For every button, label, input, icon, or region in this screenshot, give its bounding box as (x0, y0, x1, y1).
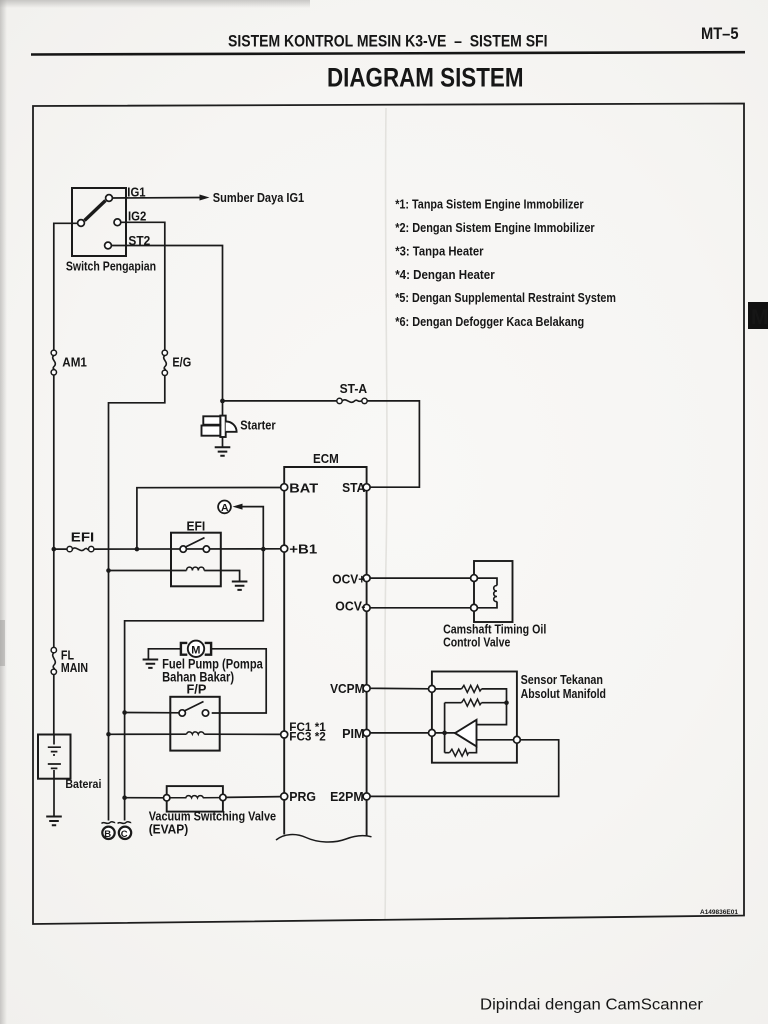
K1 contact left (180, 546, 186, 552)
svg-text:Absolut Manifold: Absolut Manifold (521, 686, 606, 701)
ground fuel pump (143, 660, 159, 668)
VSV box (167, 786, 223, 812)
wire IG1 to Sumber Daya (113, 197, 202, 200)
wire A branch and C bus (125, 507, 264, 821)
MAP wire PIM to amp (435, 732, 455, 734)
ECM box outline (284, 467, 366, 837)
fuel pump motor M circle (188, 641, 204, 657)
wire AM1 bus down (53, 375, 55, 647)
svg-text:(EVAP): (EVAP) (149, 821, 189, 836)
MAP resistor R3 line (445, 746, 477, 752)
K1 blade (186, 538, 205, 547)
wire AM1 feed (pivot to left bus) (54, 223, 78, 350)
fuel pump bracket right (205, 643, 211, 655)
svg-text:MT–5: MT–5 (701, 24, 739, 43)
K1 coil line to ground (204, 571, 239, 582)
test point A circle (218, 501, 231, 514)
junction B bus / EFI relay coil (106, 568, 111, 573)
K2 contact left (179, 710, 185, 716)
faint centre crease (385, 108, 387, 920)
wire VSV to PRG pin (226, 796, 281, 799)
fuse FL MAIN (51, 647, 56, 652)
SW1 pivot contact (78, 220, 85, 227)
starter pinion fan (226, 421, 237, 431)
svg-text:E2PM: E2PM (330, 789, 364, 804)
pin +B1 (281, 545, 288, 552)
wire EFI fuse line to +B1 (54, 548, 281, 550)
svg-text:MAIN: MAIN (61, 661, 88, 675)
MAP sensor outer box (432, 672, 517, 763)
wire IG2 to E/G (121, 222, 165, 350)
ground EFI relay (232, 582, 248, 590)
svg-text:VCPM: VCPM (330, 681, 364, 696)
connector C circle (119, 827, 131, 839)
svg-text:ST2: ST2 (128, 233, 150, 248)
pin E2PM (363, 793, 370, 800)
OCV terminal + (471, 575, 478, 582)
pin PIM (363, 729, 370, 736)
battery internal plates (48, 735, 61, 779)
svg-text:OCV-: OCV- (335, 598, 365, 613)
svg-text:OCV+: OCV+ (332, 571, 365, 586)
MAP resistor R1 line (435, 689, 506, 703)
wire ST2 to starter column (111, 246, 222, 401)
svg-text:+B1: +B1 (289, 541, 317, 556)
svg-text:EFI: EFI (187, 519, 206, 534)
fuel pump bracket left (181, 643, 187, 655)
EFI relay K1 box (171, 533, 221, 587)
SW1 terminal ST2 (105, 242, 112, 249)
junction PIM rail (442, 731, 447, 736)
MAP terminal VC (429, 686, 436, 693)
MAP resistor R2 (462, 699, 482, 706)
svg-text:EFI: EFI (71, 530, 94, 545)
svg-text:M: M (191, 645, 200, 657)
diagram border frame (33, 104, 744, 925)
starter field frame upper (203, 416, 220, 424)
svg-text:IG1: IG1 (127, 184, 145, 199)
wire OCV+ (370, 577, 470, 579)
svg-text:IG2: IG2 (128, 208, 146, 223)
scan edge shading left (0, 0, 7, 1024)
svg-text:*5: Dengan Supplemental Restra: *5: Dengan Supplemental Restraint System (395, 290, 616, 305)
svg-text:Switch Pengapian: Switch Pengapian (66, 259, 156, 274)
wire E2PM (370, 740, 559, 797)
MAP feedback wire (477, 703, 507, 725)
connector B squiggle (102, 822, 116, 824)
VSV terminal right (220, 794, 226, 800)
svg-text:Sensor Tekanan: Sensor Tekanan (521, 672, 603, 687)
pin PRG (281, 793, 288, 800)
junction B bus / FP relay coil (106, 732, 111, 737)
svg-text:F/P: F/P (187, 682, 207, 697)
SW1 terminal IG2 (114, 219, 121, 226)
junction +B1 / A branch (261, 547, 266, 552)
MAP terminal PIM (429, 730, 436, 737)
K2 blade (185, 702, 204, 711)
wire ST-A to STA pin (367, 401, 419, 487)
junction C bus / FP switch (122, 710, 127, 715)
fuse AM1 (51, 350, 56, 355)
svg-text:*1: Tanpa Sistem Engine Immobi: *1: Tanpa Sistem Engine Immobilizer (395, 197, 583, 212)
wire OCV- (370, 607, 470, 609)
SW1 terminal IG1 (106, 195, 113, 202)
svg-text:*2: Dengan Sistem Engine Immob: *2: Dengan Sistem Engine Immobilizer (395, 220, 595, 235)
K2 contact right (202, 710, 208, 716)
pin STA (363, 484, 370, 491)
svg-text:DIAGRAM SISTEM: DIAGRAM SISTEM (327, 62, 524, 92)
wire fuel pump to ground (148, 649, 181, 659)
junction ST-A / starter (220, 399, 225, 404)
svg-text:AM1: AM1 (62, 354, 87, 369)
K2 coil (187, 732, 205, 734)
svg-text:E/G: E/G (172, 354, 191, 369)
svg-text:SISTEM KONTROL MESIN K3-VE –: SISTEM KONTROL MESIN K3-VE – SISTEM SFI (228, 31, 548, 50)
OCV box (474, 561, 513, 622)
ground battery (46, 817, 62, 826)
black thumb tab M (748, 302, 768, 329)
K1 coil line left (109, 570, 187, 572)
svg-text:A149836E01: A149836E01 (700, 909, 738, 916)
MAP amplifier triangle (455, 720, 477, 747)
arrowhead to test point A (233, 504, 243, 510)
wire C bus to VSV (125, 797, 164, 799)
fuse E/G (162, 350, 167, 355)
svg-text:*4: Dengan Heater: *4: Dengan Heater (395, 267, 495, 282)
connector C squiggle (118, 822, 132, 824)
svg-text:PIM: PIM (342, 726, 364, 741)
pin VCPM (363, 685, 370, 692)
fuse ST-A (337, 398, 342, 403)
pin BAT (281, 484, 288, 491)
VSV terminal left (164, 795, 170, 801)
junction AM1/EFI (52, 547, 57, 552)
svg-text:*6: Dengan Defogger Kaca Belak: *6: Dengan Defogger Kaca Belakang (395, 314, 584, 329)
wire E/G jog to B bus (109, 376, 165, 821)
MAP resistor R2 line (445, 702, 507, 704)
K2 coil line (109, 733, 281, 735)
svg-text:Control Valve: Control Valve (443, 635, 510, 650)
MAP left rail (444, 703, 446, 753)
wire starter drop (222, 401, 224, 447)
pin OCV+ (363, 575, 370, 582)
wire FL MAIN to battery (53, 675, 55, 735)
MAP amp output wire (477, 739, 514, 741)
svg-text:A: A (221, 502, 229, 514)
FP relay K2 box (170, 697, 219, 751)
SW1 lever (85, 201, 106, 221)
svg-text:*3: Tanpa Heater: *3: Tanpa Heater (395, 243, 483, 258)
wire PIM (370, 732, 428, 734)
arrowhead Sumber Daya (200, 195, 210, 201)
K1 coil (187, 567, 205, 570)
svg-text:STA: STA (342, 480, 366, 495)
svg-text:Dipindai dengan CamScanner: Dipindai dengan CamScanner (480, 997, 703, 1014)
pin OCV- (363, 604, 370, 611)
pin FC (281, 731, 288, 738)
svg-text:Sumber Daya IG1: Sumber Daya IG1 (213, 190, 304, 205)
header rule (31, 52, 745, 54)
svg-text:C: C (121, 829, 128, 840)
ground starter (215, 447, 231, 455)
starter M1 armature bar (220, 416, 225, 437)
fuse EFI (67, 546, 72, 551)
K2 switch line from C bus (125, 712, 179, 714)
MAP terminal E2 (514, 736, 521, 743)
K1 contact right (203, 546, 209, 552)
MAP resistor R1 (462, 685, 482, 692)
OCV internal wiring (477, 578, 497, 608)
junction R1/R2 feedback (504, 700, 509, 705)
wire BAT branch (137, 488, 281, 550)
junction BAT / +B1 line (135, 547, 140, 552)
svg-text:Baterai: Baterai (65, 777, 101, 791)
svg-text:BAT: BAT (289, 481, 318, 496)
wire battery to ground (53, 779, 55, 816)
ignition switch SW1 box (72, 188, 126, 256)
svg-text:FC3 *2: FC3 *2 (289, 732, 326, 744)
OCV coil (494, 586, 497, 602)
svg-text:ECM: ECM (313, 451, 339, 466)
OCV terminal - (471, 604, 478, 611)
ECM torn bottom edge (276, 835, 372, 842)
svg-text:PRG: PRG (289, 789, 316, 804)
svg-text:B: B (104, 829, 111, 840)
svg-text:ST-A: ST-A (340, 381, 368, 396)
MAP resistor R3 (450, 749, 469, 756)
svg-text:M: M (751, 306, 768, 329)
junction C bus / VSV (122, 795, 127, 800)
VSV coil (170, 796, 220, 798)
connector B circle (102, 827, 114, 839)
svg-text:Starter: Starter (240, 418, 276, 433)
wire fuel pump to FP relay switch (211, 649, 266, 713)
wire VCPM (370, 687, 428, 690)
starter field frame lower (202, 426, 221, 436)
battery BAT1 box (38, 735, 71, 779)
wire ST-A line (223, 400, 337, 402)
